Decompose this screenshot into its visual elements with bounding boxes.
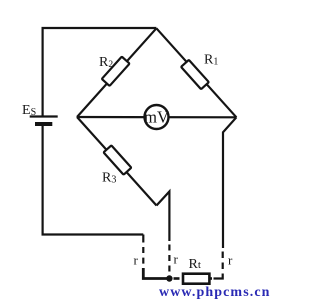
- svg-text:r: r: [228, 253, 233, 268]
- lead resistance r1 dashed vertical (left): [143, 235, 169, 279]
- wire meter branch (left vertex to right vertex): [77, 116, 236, 119]
- svg-text:www.phpcms.cn: www.phpcms.cn: [159, 285, 271, 300]
- dashed corner bottom-right: [214, 274, 223, 279]
- lead resistance r2 dashed vertical (middle): [168, 245, 170, 274]
- resistor Rt body: [183, 274, 209, 284]
- wire right vertex elbow down: [223, 117, 236, 248]
- wire top-left loop: battery top to top vertex: [43, 28, 157, 116]
- wire bridge arm R2 (left vertex to top vertex): [77, 28, 156, 117]
- resistor R3 body: [104, 145, 132, 174]
- svg-text:r: r: [134, 253, 139, 268]
- wire bridge arm R1 (top vertex to right vertex): [156, 28, 236, 117]
- junction node (dot): [166, 275, 172, 281]
- millivoltmeter U1 circle: [145, 105, 169, 129]
- wire notch (bottom vertex up to vertical): [157, 192, 170, 242]
- wire battery bottom to bottom-left corner and right: [43, 125, 144, 235]
- dashed segment dot to Rt: [174, 277, 180, 280]
- svg-text:Rt: Rt: [189, 257, 201, 272]
- lead resistance r3 dashed vertical (right): [222, 252, 224, 271]
- svg-text:R2: R2: [99, 55, 113, 70]
- svg-text:mV: mV: [144, 108, 169, 127]
- svg-text:R1: R1: [204, 53, 218, 68]
- resistor R1 body: [181, 60, 209, 89]
- svg-text:r: r: [174, 252, 179, 267]
- svg-text:ES: ES: [22, 103, 36, 118]
- svg-text:R3: R3: [102, 171, 116, 186]
- wire Rt right stub: [209, 277, 212, 280]
- resistor R2 body: [102, 57, 130, 86]
- battery Es plates: [30, 115, 58, 117]
- wire bridge arm R3 (left vertex to bottom vertex): [77, 117, 157, 206]
